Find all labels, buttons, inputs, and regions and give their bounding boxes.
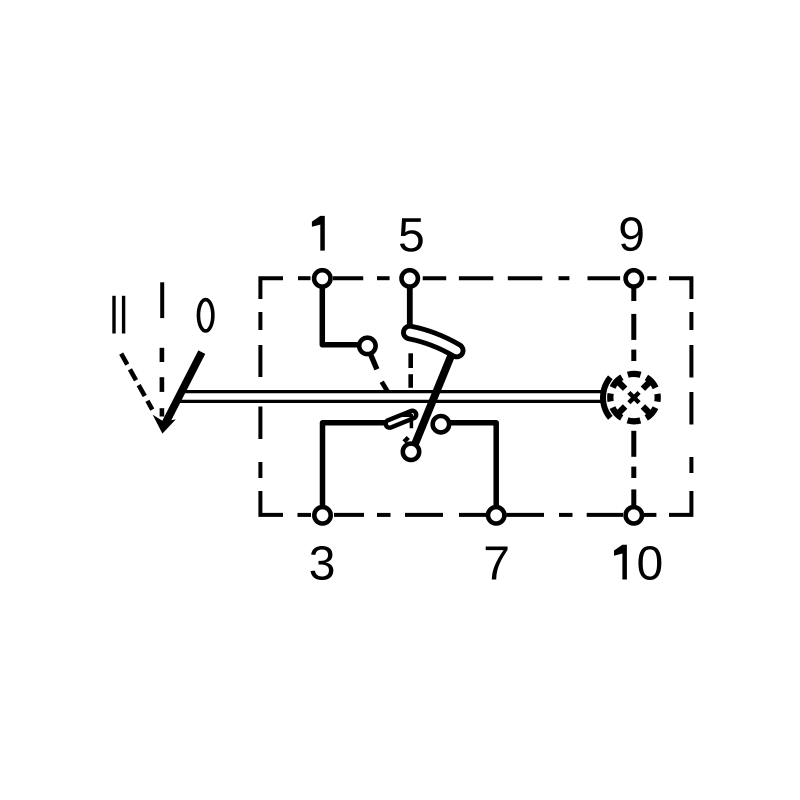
- stub above terminal 10: [631, 489, 636, 506]
- dash mark near pivot: [404, 438, 408, 442]
- terminal 9: [626, 270, 642, 286]
- wire from terminal 3: [323, 423, 386, 513]
- switch body outline, bottom side: [298, 513, 657, 517]
- dashed alternate contact path (position II): [382, 382, 388, 392]
- terminal label 5: [400, 218, 423, 251]
- bridging contact (small pad): [390, 415, 413, 424]
- lamp connector dashes (terminal 9 to lamp): [631, 314, 636, 361]
- centre dashed line (position 0 of rocker): [408, 353, 413, 388]
- rocker contact pad: [410, 333, 457, 351]
- switch body outline (dash-dot frame), top side: [260, 278, 691, 299]
- terminal label 9: [621, 217, 643, 251]
- lamp connector dashes (lamp to terminal 10): [631, 431, 636, 478]
- lamp X arms: [616, 380, 652, 416]
- wire from terminal 7: [451, 423, 497, 513]
- terminal 5: [402, 270, 418, 286]
- label II: [114, 296, 124, 334]
- switch body outline, left side: [260, 312, 283, 515]
- terminal label 3: [311, 546, 334, 580]
- terminal label 1: [312, 216, 325, 251]
- fixed contact of terminal 7: [433, 416, 449, 432]
- lamp holder arc: [603, 377, 610, 418]
- terminal 7: [488, 507, 504, 523]
- lamp centre cross: [629, 393, 639, 403]
- wire from terminal 1: [322, 280, 357, 345]
- label I: [160, 282, 164, 318]
- moving contact leg: [415, 353, 452, 445]
- switch body outline, right side: [669, 312, 691, 515]
- fixed contact of terminal 1: [359, 338, 377, 370]
- terminal 1: [314, 270, 330, 286]
- actuator shaft (double line): [174, 392, 603, 402]
- lever arrowhead: [153, 415, 176, 434]
- indicator lamp (dashed circle): [610, 374, 657, 421]
- bridging contact hook mark: [399, 415, 411, 428]
- lever (actuator): [166, 352, 202, 423]
- terminal label 7: [486, 546, 508, 579]
- label 0: [198, 300, 212, 331]
- pivot contact circle: [403, 444, 419, 460]
- terminal 10: [626, 507, 642, 523]
- stub below terminal 9: [631, 288, 636, 301]
- terminal 3: [314, 507, 330, 523]
- position line I (dashed vertical): [160, 348, 165, 417]
- position line II (dashed diagonal): [121, 354, 152, 410]
- terminal label 10: [614, 545, 627, 580]
- wire from terminal 5: [407, 280, 413, 328]
